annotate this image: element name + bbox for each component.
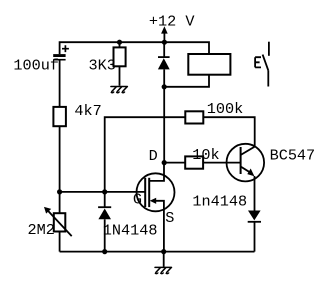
wire bottom ground rail [60,251,255,253]
svg-text:BC547: BC547 [270,147,316,165]
diode D1 1N4148 gate clamp [98,206,111,208]
potentiometer 2M2 [54,213,66,231]
wire BC547 emitter down to 1n4148 [254,176,256,211]
svg-text:S: S [165,209,174,227]
junction: top rail / center rail [162,40,167,45]
MOSFET source arrow [150,198,157,204]
svg-text:G: G [133,191,142,209]
wire 1n4148 cathode down to ground rail [254,222,256,252]
svg-text:10k: 10k [192,146,219,164]
junction: ground rail / ground stub [161,249,166,254]
svg-text:100k: 100k [207,100,243,118]
capacitor C1 100uf plates [53,54,65,57]
wire 100k right lead to BC547 collector [203,117,254,146]
transistor Q1 BC547 [227,144,265,182]
svg-text:+12 V: +12 V [149,13,195,31]
wire capacitor bottom to 4k7 [59,60,61,107]
wire source lead MOSFET to ground rail [156,201,164,252]
svg-text:100uf: 100uf [13,57,59,75]
junction: top rail / 3K3 [117,40,122,45]
wire +12V stem [163,33,165,42]
wire 4k7 bottom to gate node [59,126,61,192]
svg-text:2M2: 2M2 [28,221,55,239]
wire center rail to drain node D [163,87,165,163]
svg-text:1N4148: 1N4148 [103,222,158,240]
ground under 3K3 [111,87,128,93]
junction: relay bottom / center rail [162,84,167,89]
wire gate node down to 2M2 pot [59,192,61,213]
wire 10k right lead to BC547 base [203,162,241,164]
resistor R2 4k7 [53,107,66,126]
wire feedback column up and over to 100k [105,117,186,192]
junction: ground rail / 1N4148 [102,249,107,254]
MOSFET T1 [137,173,175,211]
junction: node D [162,160,167,165]
potentiometer arrow [48,210,72,236]
wire ground stub bottom center [163,252,165,267]
wire 1N4148 bottom to ground rail [104,219,106,251]
relay coil K1 [188,54,230,75]
wire relay bottom to center rail [164,75,209,87]
svg-text:4k7: 4k7 [74,102,101,120]
junction: gate wire / 1N4148 column [102,189,107,194]
relay contact switch [255,42,269,87]
wire 1N4148 anode stub [104,192,106,207]
resistor R4 10k [185,156,203,168]
svg-text:1n4148: 1n4148 [192,193,247,211]
svg-text:3K3: 3K3 [89,57,116,75]
junction: gate node at left rail [57,189,62,194]
wire top rail from capacitor to relay [60,42,209,54]
diode 1n4148 at BC547 emitter [248,211,261,221]
resistor R3 100k [185,111,203,123]
+12V arrow head [161,26,168,33]
capacitor C1 plus sign [62,45,69,52]
ground bottom center [155,267,172,273]
resistor R1 3K3 [114,47,126,66]
wire 2M2 bottom to ground rail [59,232,61,252]
flyback diode across relay coil [158,56,170,58]
wire 3K3 top lead [119,42,121,47]
wire D node to 10k left lead [164,162,185,164]
wire drain lead from D node into MOSFET [149,163,164,181]
svg-text:D: D [149,147,158,165]
wire 3K3 bottom lead to ground [119,66,121,85]
wire gate node horizontal to MOSFET gate [60,191,146,193]
